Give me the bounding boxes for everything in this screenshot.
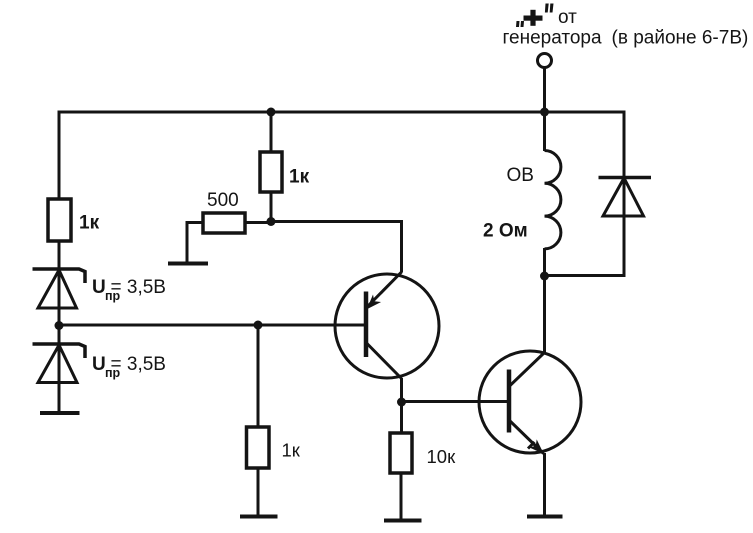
wire T2 collector to node D	[543, 277, 546, 353]
node A junction (between zeners)	[55, 321, 64, 330]
label VD1 forward voltage	[92, 277, 166, 303]
wire node C to R5	[400, 402, 403, 434]
wire VD2 to ground	[58, 382, 61, 412]
transistor T2 (NPN)	[479, 351, 581, 454]
svg-text:500: 500	[207, 190, 239, 211]
wire VD1 to node A	[58, 308, 61, 326]
wire R4 to ground	[257, 468, 260, 515]
svg-text:1к: 1к	[79, 213, 100, 234]
svg-text:генератора: генератора	[503, 28, 602, 49]
resistor R2 1k (upper middle)	[260, 152, 282, 192]
svg-text:1к: 1к	[289, 167, 310, 188]
wire terminal to top rail	[543, 68, 546, 113]
resistor R1 1k (left)	[48, 199, 71, 241]
resistor R5 10k	[390, 433, 412, 473]
label VD2 forward voltage	[92, 354, 166, 380]
svg-text:U: U	[92, 354, 106, 375]
wire junction to R4	[257, 325, 260, 428]
svg-text:2 Ом: 2 Ом	[483, 221, 528, 242]
junction node C (T1 collector / T2 base / R5)	[397, 398, 406, 407]
svg-text:1к: 1к	[282, 440, 301, 461]
wire R1 to zener VD1	[58, 241, 61, 270]
wire top rail to coil OV	[543, 112, 546, 151]
zener diode VD2	[33, 344, 86, 383]
svg-text:U: U	[92, 277, 106, 298]
transistor T1 (PNP)	[335, 272, 439, 379]
terminal "+" from generator	[538, 54, 552, 68]
wire node D to diode branch bottom	[545, 274, 626, 277]
svg-text:= 3,5В: = 3,5В	[111, 354, 166, 375]
svg-text:ОВ: ОВ	[507, 165, 534, 186]
wire top rail right segment	[545, 111, 626, 114]
ground bar below R5	[384, 519, 422, 523]
zener diode VD1	[33, 269, 86, 309]
wire R2 to node B	[270, 192, 273, 223]
svg-text:= 3,5В: = 3,5В	[111, 277, 166, 298]
wire node C to T2 base	[402, 400, 510, 403]
wire top rail left segment	[58, 111, 273, 114]
wire node A to T1 base	[59, 324, 366, 327]
junction node A / R4	[254, 321, 263, 330]
wire node B to T1 emitter	[271, 222, 402, 273]
wire R5 to ground	[400, 473, 403, 519]
svg-text:10к: 10к	[427, 446, 457, 467]
wire R3 right to node B	[245, 221, 271, 224]
diode VD3 (freewheel)	[599, 178, 652, 217]
ground bar left of R3	[168, 262, 208, 266]
svg-text:(в районе 6-7В): (в районе 6-7В)	[612, 28, 749, 49]
wire T2 emitter to ground	[543, 453, 546, 515]
junction node D (coil bottom)	[540, 272, 549, 281]
wire top rail down to R1	[58, 111, 61, 201]
junction node B (R2/R3 output)	[267, 217, 276, 226]
wire coil to node D	[543, 248, 546, 277]
junction top rail / coil	[540, 108, 549, 117]
label "+" from generator line 1	[516, 4, 577, 29]
svg-text:от: от	[558, 7, 577, 28]
inductor coil OV 2 Ohm	[545, 151, 561, 249]
resistor R3 500 (horizontal)	[203, 213, 245, 233]
ground bar below R4	[240, 515, 278, 519]
resistor R4 1k (bottom middle)	[247, 427, 270, 468]
junction top rail / R2	[267, 108, 276, 117]
wire T1 collector to node C	[400, 378, 403, 403]
wire top rail to R2	[270, 112, 273, 152]
wire node A to zener VD2	[58, 325, 61, 345]
wire diode branch vertical	[623, 111, 626, 278]
ground bar below T2	[527, 515, 563, 519]
ground bar below VD2	[40, 411, 80, 415]
wire top rail middle segment	[271, 111, 546, 114]
wire R3 left to ground	[187, 223, 203, 264]
